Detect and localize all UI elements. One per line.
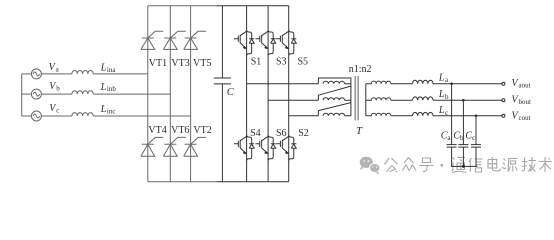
ac source Vc [22,111,42,121]
capacitor Cb lower lead [462,147,464,166]
igbt S4 [234,135,254,160]
svg-text:L: L [100,104,107,115]
inductor Lina [72,70,93,73]
capacitor bus junction [462,165,465,168]
svg-text:L: L [438,105,445,116]
node b junction [462,99,465,102]
igbt S1 [234,30,254,55]
watermark text hao [420,158,434,172]
rectifier leg c [190,6,192,182]
wire Lina to bridge leg1 [93,73,148,75]
svg-text:L: L [100,63,107,74]
igbt S5 [276,30,296,55]
label La [438,72,449,84]
label Cb [453,130,464,142]
inductor Lb [413,97,434,100]
svg-text:L: L [438,89,445,100]
svg-text:a: a [447,134,451,142]
label VT1 [149,58,167,69]
wire secondary c to Lc [391,115,413,117]
capacitor common bus [451,165,477,167]
label S6 [276,128,287,139]
wire Linc to bridge leg3 [93,115,190,117]
thyristor VT2 [184,137,206,156]
watermark text yuan [502,159,517,172]
svg-text:inc: inc [107,108,116,116]
label n1:n2 [349,64,372,75]
label VT2 [193,125,211,136]
label C [227,87,235,98]
label Ca [441,130,452,142]
label Va [49,62,60,73]
watermark text tong [452,158,467,173]
output terminal c [502,114,505,117]
inverter leg 1 [246,6,248,182]
svg-text:aout: aout [519,81,531,89]
capacitor Ca lower lead [451,147,453,166]
svg-text:b: b [460,134,464,142]
node c junction [475,115,478,118]
ac source Vb [22,89,42,99]
svg-text:VT5: VT5 [193,58,211,69]
svg-text:VT6: VT6 [171,125,189,136]
inverter leg 3 [288,6,290,182]
wire Lb to output b [433,99,502,101]
watermark text shu [539,157,552,172]
inductor Linb [72,91,93,94]
inductor Lc [413,112,434,115]
label S3 [276,56,287,67]
rectifier leg a [147,6,149,182]
output terminal a [502,82,505,85]
wire inverter phase w to transformer [289,115,319,117]
transformer secondary neutral [365,84,367,116]
svg-text:cout: cout [519,114,531,122]
watermark text gong [385,158,398,172]
svg-text:n1:n2: n1:n2 [349,64,372,75]
svg-text:L: L [438,72,445,83]
label Lb [438,89,449,101]
igbt S6 [256,135,276,160]
svg-text:C: C [227,87,235,98]
svg-text:c: c [472,134,475,142]
svg-text:c: c [56,106,59,114]
label Lc [438,105,448,117]
capacitor Cc plates [471,145,481,148]
wire secondary b to Lb [391,99,413,101]
label T [356,125,363,137]
label Cc [465,130,475,142]
svg-text:S3: S3 [276,56,287,67]
capacitor Cc lower lead [475,147,477,166]
watermark wechat icon [360,157,380,175]
svg-text:b: b [56,84,60,92]
svg-text:S2: S2 [298,128,309,139]
svg-text:bout: bout [519,98,532,106]
label Linb [100,82,117,93]
capacitor Cc branch [475,116,477,145]
svg-text:VT4: VT4 [148,125,166,136]
capacitor Cb branch [462,100,464,144]
igbt S2 [276,135,296,160]
svg-text:VT2: VT2 [193,125,211,136]
thyristor VT5 [184,31,206,49]
svg-text:S4: S4 [250,128,261,139]
svg-text:S6: S6 [276,128,287,139]
dc bottom bus [148,181,289,183]
label S1 [251,56,262,67]
transformer secondary winding b [366,98,391,101]
label Vcout [512,110,531,122]
wire Lc to output c [433,115,502,117]
svg-text:L: L [100,82,107,93]
wire Va to Lina [41,73,72,75]
capacitor Cb plates [458,145,468,148]
label Vaout [512,78,531,90]
wire secondary a to La [391,83,413,85]
svg-text:T: T [356,125,363,137]
thyristor VT1 [141,31,163,49]
wire Vb to Linb [41,93,72,95]
inductor Linc [72,113,93,116]
watermark text dian [488,157,500,171]
svg-text:inb: inb [107,85,116,93]
svg-text:S1: S1 [251,56,262,67]
inductor La [413,80,434,83]
transformer secondary winding c [366,113,391,116]
svg-text:VT1: VT1 [149,58,167,69]
igbt S3 [256,30,276,55]
inverter leg 2 [267,6,269,182]
watermark text dot [440,164,443,167]
label Lina [100,63,117,74]
label S4 [250,128,261,139]
transformer T primary winding 3 [323,103,351,116]
dc-link capacitor C plates [214,78,231,84]
svg-text:a: a [445,76,449,84]
capacitor Ca plates [447,145,457,148]
watermark text zhong [403,158,417,171]
transformer core [355,76,358,120]
svg-text:ina: ina [107,66,116,74]
dc-link capacitor C leg lower [221,84,223,182]
wire Vc to Linc [41,115,72,117]
transformer secondary winding a [366,81,391,84]
thyristor VT4 [141,137,163,156]
neutral wire [21,74,23,116]
label VT3 [171,58,189,69]
wire inverter phase u to transformer [247,83,319,85]
svg-text:a: a [56,65,60,73]
capacitor Ca branch [451,84,453,145]
transformer T primary winding 1 [318,78,351,100]
label VT5 [193,58,211,69]
label S5 [298,56,309,67]
thyristor VT3 [163,31,185,49]
svg-text:S5: S5 [298,56,309,67]
svg-text:VT3: VT3 [171,58,189,69]
rectifier leg b [169,6,171,182]
dc top bus [148,5,289,7]
label Vc [49,103,59,114]
wire La to output a [433,83,502,85]
label Vbout [512,95,532,107]
watermark text ji [522,157,537,172]
watermark text xin [469,158,483,172]
label VT6 [171,125,189,136]
wire Linb to bridge leg2 [93,93,170,95]
node a junction [450,82,453,85]
wire inverter phase v to transformer [268,99,318,101]
output terminal b [502,99,505,102]
label S2 [298,128,309,139]
transformer T primary winding 2 [318,86,351,116]
dc-link capacitor C leg upper [221,6,223,78]
label Linc [100,104,116,115]
thyristor VT6 [163,137,185,156]
label Vb [49,81,60,92]
label VT4 [148,125,166,136]
ac source Va [22,69,42,79]
